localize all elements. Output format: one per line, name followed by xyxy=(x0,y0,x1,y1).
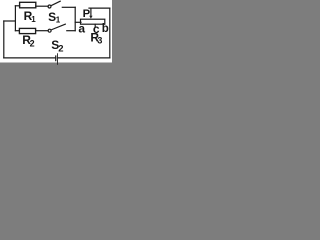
switch S2 lever xyxy=(51,24,65,30)
wire: right rail xyxy=(109,8,111,58)
battery negative plate (short thick) xyxy=(55,55,56,61)
wire: stub to rheostat terminal a xyxy=(75,21,81,23)
wiper arrowhead xyxy=(89,16,92,19)
wire: right junction vertical xyxy=(74,7,76,30)
switch S2 pivot circle xyxy=(48,29,51,32)
wire: R1 branch left lead xyxy=(15,5,19,7)
svg-text:1: 1 xyxy=(56,16,61,25)
wire: left junction vertical xyxy=(14,6,16,31)
svg-text:2: 2 xyxy=(30,38,35,48)
wire: R2 to S2 xyxy=(36,30,49,32)
wire: left rail xyxy=(3,21,5,58)
svg-text:a: a xyxy=(78,21,85,35)
rheostat R3 body xyxy=(81,19,105,24)
resistor R1 xyxy=(20,2,36,8)
resistor R2 xyxy=(19,28,35,33)
switch S1 pivot circle xyxy=(48,5,51,8)
wiper arrow shaft xyxy=(90,8,92,16)
wire: R2 branch left lead xyxy=(15,30,19,32)
svg-text:1: 1 xyxy=(31,15,36,24)
switch S1 lever xyxy=(51,1,60,6)
svg-text:P: P xyxy=(83,8,91,20)
battery positive plate (long thin) xyxy=(56,53,59,65)
wire: left stub to rail xyxy=(4,20,16,22)
svg-text:2: 2 xyxy=(58,43,63,54)
wire: bottom left to battery xyxy=(4,57,55,59)
wire: S1 to right junction xyxy=(62,6,75,8)
rheostat terminal c tick xyxy=(94,24,96,26)
wire: R1 to S1 xyxy=(36,5,48,7)
wire: battery to bottom right xyxy=(58,57,110,59)
white drawing area xyxy=(0,0,112,63)
svg-text:b: b xyxy=(102,23,109,35)
wire: S2 to right junction xyxy=(67,30,75,32)
svg-text:3: 3 xyxy=(97,36,102,46)
wire: top right to wiper xyxy=(89,7,110,9)
